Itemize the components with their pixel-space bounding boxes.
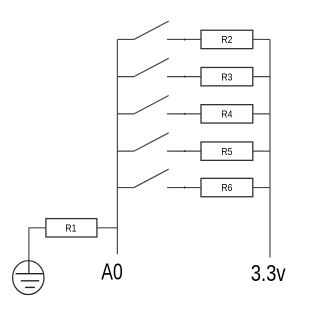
switch S5	[117, 169, 201, 187]
svg-text:R1: R1	[65, 222, 76, 234]
node A0 bus (left vertical wire)	[116, 39, 118, 254]
svg-text:A0: A0	[101, 259, 122, 285]
resistor R6	[201, 178, 253, 196]
switch S3	[117, 96, 201, 114]
node 3.3v bus (right vertical wire)	[269, 39, 271, 257]
junction dot S1	[184, 38, 186, 40]
resistor R1	[46, 219, 97, 237]
wire R6 to 3.3v	[253, 187, 270, 189]
junction dot S3	[184, 113, 186, 115]
svg-text:R3: R3	[221, 71, 232, 83]
ground	[13, 261, 44, 295]
svg-text:R6: R6	[221, 182, 232, 194]
switch S1	[117, 21, 201, 39]
junction dot S2	[184, 76, 186, 78]
junction dot S4	[184, 150, 186, 152]
svg-text:R2: R2	[221, 34, 232, 46]
resistor R5	[201, 142, 253, 160]
switch S4	[117, 133, 201, 151]
wire R1 to ground	[29, 228, 46, 261]
resistor R3	[201, 67, 253, 85]
junction dot S5	[184, 187, 186, 189]
switch S2	[117, 58, 201, 76]
resistor R4	[201, 105, 253, 123]
wire R1 to A0 bus	[97, 227, 118, 229]
wire R5 to 3.3v	[253, 150, 270, 152]
wire R2 to 3.3v	[253, 38, 270, 40]
svg-text:R5: R5	[221, 146, 232, 158]
wire R3 to 3.3v	[253, 76, 270, 78]
resistor R2	[201, 30, 253, 48]
wire R4 to 3.3v	[253, 113, 270, 115]
svg-text:R4: R4	[221, 109, 232, 121]
svg-text:3.3v: 3.3v	[251, 260, 286, 286]
